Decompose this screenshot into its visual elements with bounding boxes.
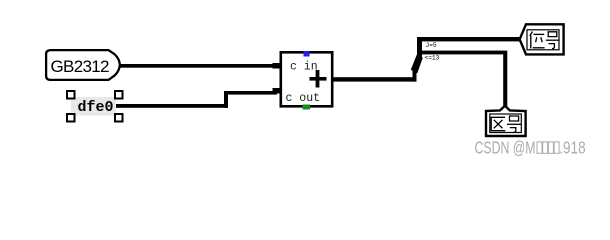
wire vertical step [224,91,228,108]
selection handle top-left of dfe0 [67,91,75,99]
blue terminal dot [304,51,310,57]
wire riser [417,37,422,60]
svg-text:CSDN @M: CSDN @M [475,138,536,158]
glyph 区 [491,117,505,130]
svg-text:.918: .918 [559,138,586,158]
wire branch to 区号 horizontal [420,51,507,55]
wire branch vertical drop [503,54,507,109]
svg-text:c in: c in [290,61,318,74]
output wire diagonal [411,55,423,74]
wire from dfe0 lower segment [116,104,228,108]
indicator 位号 [520,24,564,54]
glyph 号 lower [507,116,522,132]
glyph 号 [546,32,560,49]
indicator 区号 [486,106,526,136]
string constant GB2312 [46,50,120,80]
wire upper segment to c out [224,91,277,95]
selection handle bottom-right of dfe0 [115,114,123,122]
input terminal stub c out [273,88,282,94]
output wire horizontal [332,77,417,81]
concatenate node U1 [281,51,332,110]
selection handle bottom-left of dfe0 [67,114,75,122]
green terminal dot [303,105,311,110]
selection handle top-right of dfe0 [115,91,123,99]
plus symbol [310,77,327,81]
svg-text:GB2312: GB2312 [51,57,110,76]
wire to 位号 [417,37,521,41]
svg-text:dfe0: dfe0 [78,99,114,116]
tofu boxes [537,142,559,153]
watermark CSDN [475,138,586,158]
svg-text:c out: c out [286,92,321,105]
glyph 位 [530,32,545,49]
output wire corner up [413,70,417,82]
string constant dfe0 [71,97,116,116]
svg-text:J=5: J=5 [426,42,437,49]
svg-text:<=13: <=13 [425,55,440,62]
input terminal stub c in [273,63,282,69]
wire from GB2312 to concatenator c in [119,64,281,68]
